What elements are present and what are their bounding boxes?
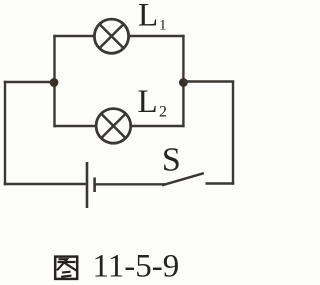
svg-text:1: 1 — [159, 18, 167, 34]
wire: bottom branch left segment — [53, 125, 96, 127]
wire: left vertical of parallel section — [53, 35, 55, 127]
wire: outer right vertical — [232, 81, 234, 185]
node junction left (dot) — [50, 78, 59, 87]
wire: battery to switch — [95, 183, 165, 185]
svg-text:L: L — [138, 84, 158, 120]
label L1 — [138, 0, 167, 34]
svg-text:11-5-9: 11-5-9 — [93, 249, 180, 285]
battery short plate (negative) — [93, 178, 96, 193]
wire: outer left vertical — [4, 81, 6, 185]
battery long plate (positive) — [86, 162, 89, 208]
wire: switch right contact to outer right — [206, 182, 235, 184]
wire: top branch left segment — [53, 35, 95, 37]
wire: right junction to outer loop — [183, 80, 234, 82]
switch S blade — [162, 173, 204, 185]
svg-text:L: L — [138, 0, 158, 34]
lamp L1 — [94, 19, 128, 53]
node junction right (dot) — [179, 78, 188, 87]
wire: top branch right segment — [128, 35, 185, 37]
wire: bottom branch right segment — [130, 125, 185, 127]
wire: bottom left horizontal to battery — [4, 183, 87, 185]
svg-text:S: S — [162, 141, 181, 178]
lamp L2 — [96, 109, 131, 144]
wire: right vertical of parallel section — [182, 35, 184, 127]
label L2 — [138, 84, 168, 121]
caption glyph 图 (drawn) — [55, 257, 77, 279]
wire: left junction to outer loop — [4, 81, 54, 83]
svg-text:2: 2 — [159, 104, 167, 121]
